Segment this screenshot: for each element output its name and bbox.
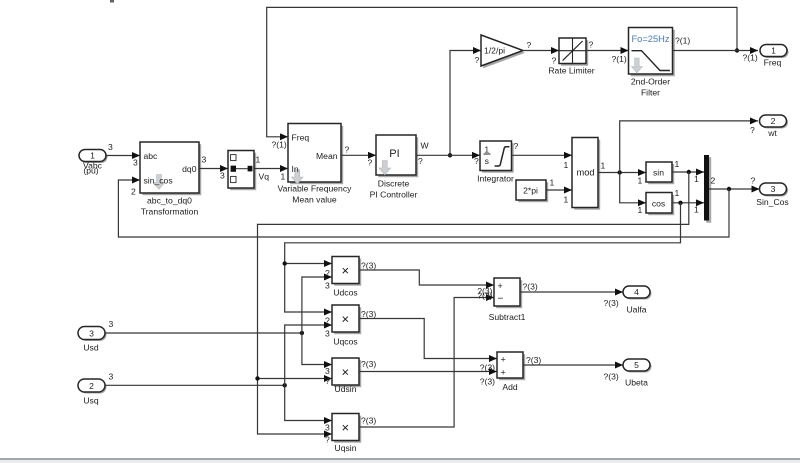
- wire mod output to sin: [598, 172, 646, 174]
- label Sin_Cos: [756, 197, 788, 207]
- variable frequency pin labels: [292, 132, 338, 174]
- label 1 below mux input 1: [694, 174, 699, 184]
- svg-text:Add: Add: [502, 382, 518, 392]
- svg-text:3: 3: [325, 366, 330, 376]
- svg-text:Freq: Freq: [764, 57, 782, 67]
- wire PI W output to Integrator: [416, 154, 480, 156]
- label ?(3) at Udcos output: [361, 260, 376, 270]
- label ?(3) below Add input 1: [480, 363, 495, 373]
- svg-text:Fo=25Hz: Fo=25Hz: [632, 34, 670, 44]
- output port 4 Ualfa shadow: [625, 288, 652, 300]
- svg-text:3: 3: [89, 328, 94, 338]
- wire mux to Sin_Cos outport: [709, 188, 760, 190]
- svg-text:dq0: dq0: [182, 164, 197, 174]
- svg-text:Uqsin: Uqsin: [335, 443, 357, 453]
- wire Vabc to abc input: [106, 155, 140, 157]
- svg-text:1: 1: [484, 144, 489, 154]
- svg-text:?: ?: [589, 40, 594, 50]
- label ?(3) below Subtract1 input 1: [477, 286, 492, 296]
- svg-text:?: ?: [325, 376, 330, 386]
- product Uqsin block: [332, 414, 359, 441]
- svg-text:2nd-Order: 2nd-Order: [631, 76, 670, 86]
- output port 2 wt shadow: [761, 117, 788, 129]
- output port 3 Sin_Cos shadow: [761, 185, 788, 197]
- svg-text:Mean: Mean: [316, 151, 338, 161]
- label 1 below cos input: [638, 205, 643, 215]
- junction PI output branch: [448, 153, 452, 157]
- svg-text:Usq: Usq: [83, 395, 99, 405]
- svg-text:4: 4: [634, 287, 639, 297]
- mux bar: [704, 155, 709, 221]
- wire Usq down to Uqsin input 1: [285, 385, 332, 420]
- label ? below PI output: [418, 156, 423, 166]
- 2nd-order filter block Fo=25Hz: [629, 28, 673, 75]
- output port 5 Ubeta shadow: [625, 361, 652, 373]
- label Uqcos: [333, 336, 357, 346]
- label ? below Rate Limiter input: [552, 56, 557, 66]
- svg-text:×: ×: [342, 364, 350, 379]
- svg-text:×: ×: [342, 311, 350, 326]
- junction Sin_Cos branch: [727, 187, 731, 191]
- svg-text:3: 3: [325, 422, 330, 432]
- label ?(3) below Subtract1 input 2: [477, 291, 492, 301]
- wire abc dq0 output to selector: [199, 168, 228, 170]
- label ? below Uqsin input 2: [325, 435, 330, 445]
- output port 5 Ubeta: [623, 359, 650, 371]
- svg-text:2: 2: [771, 116, 776, 126]
- label ?(3) below Add input 2: [480, 376, 495, 386]
- gain 1/2/pi shadow: [483, 38, 525, 69]
- svg-text:Uqcos: Uqcos: [333, 336, 357, 346]
- svg-text:abc_to_dq0: abc_to_dq0: [147, 195, 192, 205]
- svg-text:?: ?: [475, 55, 480, 65]
- label 2nd-Order Filter: [631, 76, 670, 97]
- wire cos feedback down to Udcos and Uqcos: [285, 203, 681, 312]
- svg-text:1: 1: [601, 160, 606, 170]
- junction cos branch: [283, 261, 287, 265]
- mod block: [572, 138, 598, 208]
- label Freq: [764, 57, 782, 67]
- wire sin branch to Udsin input 2: [258, 378, 333, 380]
- add block: [497, 352, 523, 378]
- svg-text:3: 3: [220, 170, 225, 180]
- sin block shadow: [648, 164, 674, 184]
- product Udcos shadow: [334, 259, 361, 286]
- label ?(1) at Variable Frequency Freq input: [272, 140, 287, 150]
- svg-text:?: ?: [345, 144, 350, 154]
- label ? below PI input: [368, 157, 373, 167]
- svg-text:Usd: Usd: [83, 342, 99, 352]
- mux shadow: [706, 157, 711, 223]
- svg-text:cos: cos: [652, 198, 665, 208]
- svg-text:3: 3: [109, 372, 114, 382]
- svg-text:?(3): ?(3): [477, 291, 492, 301]
- svg-text:+: +: [498, 281, 503, 291]
- svg-text:2: 2: [89, 381, 94, 391]
- gray update arrow inside filter: [632, 58, 643, 73]
- input port 1 Vabc: [79, 150, 106, 162]
- label ? above Mean output: [345, 144, 350, 154]
- abc_to_dq0 transformation block: [140, 142, 199, 193]
- label Vabc (pu): [83, 161, 103, 176]
- svg-text:3: 3: [771, 184, 776, 194]
- label 2 below sin_cos input: [131, 186, 136, 196]
- output port 3 Sin_Cos: [760, 183, 787, 195]
- wire mod output branch up to wt outport: [620, 121, 758, 173]
- subtract1 block shadow: [496, 280, 522, 308]
- label Vq below selector output: [259, 171, 270, 181]
- svg-text:−: −: [498, 293, 504, 304]
- output port 2 wt: [760, 115, 787, 127]
- svg-text:?: ?: [474, 156, 479, 166]
- label ?(1) at filter output: [675, 36, 690, 46]
- svg-text:?(3): ?(3): [604, 298, 619, 308]
- svg-text:1: 1: [638, 175, 643, 185]
- wire Uqcos output to Add input 1: [359, 319, 497, 359]
- label Udcos: [333, 287, 357, 297]
- label Uqsin: [335, 443, 357, 453]
- label ? below Udcos input 1: [325, 268, 330, 278]
- label 1 below In input: [281, 172, 286, 182]
- wire Usd down to Udsin input 1: [302, 333, 332, 365]
- discrete PI controller block: [376, 135, 416, 175]
- svg-text:abc: abc: [144, 151, 159, 161]
- svg-text:?(1): ?(1): [272, 140, 287, 150]
- wire Usd up to Udcos input 2: [302, 277, 332, 333]
- junction sin branch: [255, 376, 259, 380]
- constant 2*pi block: [516, 180, 546, 200]
- svg-text:?: ?: [514, 141, 519, 151]
- wire mod output branch down to cos: [620, 173, 646, 203]
- cos block shadow: [648, 195, 674, 216]
- sin block: [646, 162, 672, 182]
- abc_to_dq0 pin labels: [144, 151, 197, 186]
- wire cos to mux input 2: [672, 202, 704, 204]
- input port 2 Usq shadow: [80, 381, 107, 394]
- label 3 below abc input: [133, 157, 138, 167]
- svg-text:Discrete: Discrete: [378, 178, 410, 188]
- svg-text:?: ?: [325, 268, 330, 278]
- selector block shadow: [230, 153, 256, 191]
- svg-text:5: 5: [634, 360, 639, 370]
- svg-text:W: W: [421, 141, 430, 151]
- svg-text:Rate Limiter: Rate Limiter: [548, 65, 594, 75]
- output port 1 Freq: [760, 45, 787, 57]
- svg-text:?(1): ?(1): [743, 53, 758, 63]
- label Integrator: [477, 173, 514, 183]
- svg-text:1: 1: [281, 172, 286, 182]
- label 1 above sin output: [675, 159, 680, 169]
- svg-text:Filter: Filter: [641, 87, 660, 97]
- label ? below gain input wire: [475, 55, 480, 65]
- product Udcos block: [332, 257, 359, 284]
- variable frequency mean value block shadow: [290, 126, 343, 185]
- svg-text:3: 3: [133, 157, 138, 167]
- wire PI output branch up to gain input: [450, 51, 481, 156]
- wire sin to mux input 1: [672, 171, 704, 173]
- wire sin feedback down to Udsin and Uqsin: [258, 172, 689, 434]
- label ?(3) before Ualfa port: [604, 298, 619, 308]
- input port 1 Vabc shadow: [81, 151, 108, 163]
- mod block shadow: [574, 140, 600, 210]
- abc_to_dq0 block shadow: [142, 144, 201, 195]
- label Subtract1: [489, 312, 526, 322]
- svg-text:?(3): ?(3): [604, 371, 619, 381]
- selector block: [228, 151, 254, 189]
- svg-text:?(1): ?(1): [612, 54, 627, 64]
- label ?(3) at Udsin output: [361, 359, 376, 369]
- integrator block shadow: [482, 143, 514, 173]
- output port 1 Freq shadow: [762, 46, 789, 58]
- gain 1/2/pi: [481, 35, 523, 66]
- label ? above gain output: [527, 40, 532, 50]
- svg-text:?: ?: [750, 125, 755, 135]
- svg-text:Ubeta: Ubeta: [625, 377, 648, 387]
- label ? below Udsin input 2: [325, 376, 330, 386]
- label ? below Uqcos input 1: [325, 316, 330, 326]
- svg-text:?: ?: [325, 435, 330, 445]
- svg-text:1: 1: [694, 174, 699, 184]
- label 3 above dq0 output: [202, 154, 207, 164]
- wire feedback loop from Freq line to Variable Frequency Freq input: [267, 7, 737, 136]
- product Uqsin shadow: [334, 416, 361, 443]
- svg-text:mod: mod: [576, 167, 594, 177]
- svg-text:3: 3: [109, 319, 114, 329]
- product Udsin shadow: [334, 360, 361, 387]
- label Rate Limiter: [548, 65, 594, 75]
- add block shadow: [499, 354, 525, 380]
- svg-text:2*pi: 2*pi: [523, 186, 538, 196]
- input port 2 Usq: [78, 379, 105, 392]
- svg-text:1: 1: [694, 204, 699, 214]
- input port 3 Usd: [78, 327, 105, 340]
- product Uqcos shadow: [334, 307, 361, 334]
- wire filter to Freq outport: [673, 50, 759, 52]
- svg-text:?(3): ?(3): [361, 416, 376, 426]
- label 3 width Usd: [109, 319, 114, 329]
- label ? below Integrator input: [474, 156, 479, 166]
- output port 4 Ualfa: [623, 286, 650, 298]
- svg-text:sin_cos: sin_cos: [144, 175, 173, 185]
- wire Udsin output to Add input 2: [359, 371, 497, 373]
- junction Usd: [300, 331, 304, 335]
- label ?(1) before Freq port: [743, 53, 758, 63]
- svg-text:?: ?: [552, 56, 557, 66]
- constant 2*pi block shadow: [518, 182, 548, 202]
- label Add: [502, 382, 518, 392]
- integrator block 1/s: [480, 141, 512, 171]
- label ?(3) above Add output: [526, 355, 541, 365]
- label wt: [767, 128, 777, 138]
- status bar divider line: [0, 458, 800, 460]
- svg-text:PI Controller: PI Controller: [370, 189, 418, 199]
- svg-text:?(3): ?(3): [526, 355, 541, 365]
- label 3 width above Vabc wire: [108, 142, 113, 152]
- label ?(3) before Ubeta port: [604, 371, 619, 381]
- svg-text:2: 2: [711, 176, 716, 186]
- gray update arrow inside abc_to_dq0: [153, 175, 165, 190]
- svg-text:1: 1: [564, 194, 569, 204]
- label 1 above cos output: [675, 188, 680, 198]
- label 3 below Udsin input 1: [325, 366, 330, 376]
- svg-text:?(3): ?(3): [480, 363, 495, 373]
- svg-text:Transformation: Transformation: [141, 206, 199, 216]
- wire Add to Ubeta outport: [523, 364, 623, 366]
- junction mod output: [618, 170, 622, 174]
- junction sin output: [687, 170, 691, 174]
- svg-text:3: 3: [108, 142, 113, 152]
- svg-text:?(3): ?(3): [480, 376, 495, 386]
- svg-text:1: 1: [638, 205, 643, 215]
- label ?(1) below filter input: [612, 54, 627, 64]
- svg-text:sin: sin: [653, 168, 664, 178]
- label Ualfa: [626, 304, 646, 314]
- label 1 below mod input 1: [564, 160, 569, 170]
- svg-text:(pu): (pu): [83, 166, 98, 176]
- label 3 below Uqsin input 1: [325, 422, 330, 432]
- subtract1 block: [494, 278, 520, 306]
- product Udsin block: [332, 358, 359, 385]
- clipped text fragment at top edge: [110, 0, 114, 3]
- label 1 above 2*pi output: [550, 177, 555, 187]
- gray update arrow inside variable frequency block: [292, 170, 304, 184]
- svg-text:+: +: [501, 367, 506, 377]
- wire Usd distribution: [105, 332, 302, 334]
- svg-text:1: 1: [90, 150, 95, 160]
- product Uqcos block: [332, 305, 359, 332]
- svg-text:Variable Frequency: Variable Frequency: [278, 183, 353, 193]
- wire Usq up to Uqcos input 2: [285, 325, 332, 385]
- label Usq: [83, 395, 99, 405]
- wire Rate Limiter to 2nd-Order Filter: [586, 50, 629, 52]
- wire Variable Frequency Mean to PI: [341, 154, 376, 156]
- label 1 below mod input 2: [564, 194, 569, 204]
- svg-text:PI: PI: [389, 148, 399, 160]
- svg-text:1: 1: [550, 177, 555, 187]
- svg-text:Sin_Cos: Sin_Cos: [756, 197, 788, 207]
- label Usd: [83, 342, 99, 352]
- wire Sin_Cos feedback to abc_to_dq0 sin_cos input: [118, 180, 729, 237]
- label 3 below Uqcos input 2: [325, 328, 330, 338]
- svg-text:?(3): ?(3): [523, 281, 538, 291]
- label 1 above mod output: [601, 160, 606, 170]
- label Variable Frequency Mean value: [278, 183, 353, 204]
- wire 2*pi to mod input 2: [546, 189, 572, 191]
- svg-text:Vq: Vq: [259, 171, 270, 181]
- wire Subtract1 to Ualfa outport: [520, 291, 623, 293]
- label 1 below sin input: [638, 175, 643, 185]
- 2nd-order filter shadow: [631, 30, 675, 77]
- wire Uqsin output to Subtract1 input 2: [359, 298, 494, 428]
- label abc_to_dq0 Transformation: [141, 195, 199, 216]
- wire selector to Variable Frequency In input: [254, 168, 288, 170]
- cos block: [646, 193, 672, 214]
- wire cos branch to Udcos input 1: [285, 263, 332, 265]
- svg-text:In: In: [292, 164, 299, 174]
- label ? above Rate Limiter output: [589, 40, 594, 50]
- svg-text:Integrator: Integrator: [477, 173, 514, 183]
- wire gain to Rate Limiter: [523, 50, 559, 52]
- label ? above Integrator output: [514, 141, 519, 151]
- svg-text:1: 1: [771, 45, 776, 55]
- junction cos output: [678, 201, 682, 205]
- label W above PI output: [421, 141, 430, 151]
- svg-text:Udcos: Udcos: [333, 287, 357, 297]
- svg-text:?: ?: [418, 156, 423, 166]
- svg-text:1: 1: [256, 154, 261, 164]
- label ?(3) above Subtract1 output: [523, 281, 538, 291]
- svg-text:×: ×: [342, 420, 350, 435]
- junction Freq branch: [735, 48, 739, 52]
- svg-text:1: 1: [564, 160, 569, 170]
- label Ubeta: [625, 377, 648, 387]
- label 1 above selector output: [256, 154, 261, 164]
- label 1 below mux input 2: [694, 204, 699, 214]
- discrete PI controller block shadow: [378, 137, 418, 177]
- label ? before Sin_Cos port: [751, 175, 756, 185]
- label ?(3) at Uqcos output: [361, 309, 376, 319]
- rate limiter shadow: [561, 40, 588, 65]
- label Udsin: [335, 384, 357, 394]
- label ? before wt port: [750, 125, 755, 135]
- svg-text:1/2/pi: 1/2/pi: [484, 45, 505, 55]
- svg-text:1: 1: [675, 188, 680, 198]
- svg-text:?: ?: [751, 175, 756, 185]
- svg-text:Ualfa: Ualfa: [626, 304, 646, 314]
- svg-text:Freq: Freq: [292, 132, 310, 142]
- svg-text:wt: wt: [767, 128, 777, 138]
- label ?(3) at Uqsin output: [361, 416, 376, 426]
- svg-text:?(3): ?(3): [361, 260, 376, 270]
- svg-text:?: ?: [368, 157, 373, 167]
- input port 3 Usd shadow: [80, 328, 107, 341]
- label Discrete PI Controller: [370, 178, 418, 199]
- svg-text:3: 3: [202, 154, 207, 164]
- variable frequency mean value block: [288, 124, 341, 183]
- label 3 width Usq: [109, 372, 114, 382]
- svg-text:1: 1: [675, 159, 680, 169]
- svg-text:Subtract1: Subtract1: [489, 312, 526, 322]
- junction Usq: [283, 383, 287, 387]
- status bar: [0, 460, 800, 463]
- svg-text:?(3): ?(3): [361, 309, 376, 319]
- svg-text:Mean value: Mean value: [292, 194, 337, 204]
- label 3 below selector input: [220, 170, 225, 180]
- label 2 at mux output: [711, 176, 716, 186]
- rate limiter block: [559, 38, 586, 64]
- svg-text:+: +: [501, 354, 506, 364]
- wire Usq distribution: [105, 384, 285, 386]
- svg-text:?: ?: [527, 40, 532, 50]
- svg-text:?: ?: [325, 316, 330, 326]
- svg-text:?(3): ?(3): [361, 359, 376, 369]
- svg-text:?(1): ?(1): [675, 36, 690, 46]
- svg-text:Udsin: Udsin: [335, 384, 357, 394]
- gray update arrow inside PI block: [379, 161, 391, 175]
- svg-text:×: ×: [342, 263, 350, 278]
- label 3 below Udcos input 2: [325, 280, 330, 290]
- svg-text:3: 3: [325, 328, 330, 338]
- wire Udcos output to Subtract1 input 1: [359, 270, 494, 285]
- svg-text:3: 3: [325, 280, 330, 290]
- wire Integrator to mod input 1: [512, 154, 573, 156]
- svg-text:2: 2: [131, 186, 136, 196]
- svg-text:s: s: [485, 156, 489, 166]
